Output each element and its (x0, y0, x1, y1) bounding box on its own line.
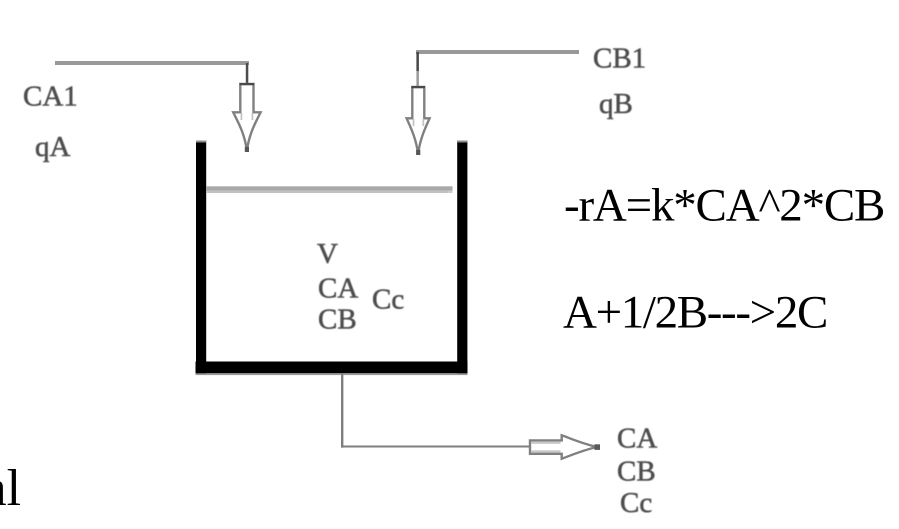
arrow: inlet B down arrow (407, 87, 430, 154)
arrow: inlet A down arrow (233, 84, 260, 151)
arrow: inlet B shaft top dark edge (411, 86, 425, 88)
liquid level line (206, 186, 453, 191)
svg-text:V: V (317, 238, 338, 270)
tank left wall top cap (196, 141, 206, 143)
svg-text:al: al (0, 460, 21, 517)
wire: inlet B vertical connector lower lighter part (416, 71, 419, 87)
wire: inlet A vertical connector (246, 63, 249, 84)
wire: outlet horizontal line (342, 446, 530, 448)
arrow: outlet dark tip (595, 444, 601, 450)
svg-text:CA1: CA1 (23, 81, 78, 113)
arrow: inlet A shaft inner line hints (241, 113, 243, 120)
svg-text:CA: CA (617, 423, 657, 455)
tank right wall (457, 141, 467, 374)
svg-text:CB1: CB1 (593, 43, 646, 75)
svg-text:A+1/2B--->2C: A+1/2B--->2C (563, 287, 827, 339)
wire: inlet A horizontal pipe (55, 61, 249, 65)
liquid level right tip lighter (448, 191, 453, 193)
svg-text:CB: CB (318, 304, 357, 336)
svg-text:CA: CA (318, 273, 358, 305)
arrow: outlet right arrow (530, 435, 597, 458)
tank bottom lower fringe (196, 373, 468, 375)
tank right wall top cap (457, 141, 467, 143)
svg-text:CB: CB (617, 456, 656, 488)
arrow: inlet A shaft top dark edge (240, 83, 255, 85)
arrow: inlet B dark tip (416, 150, 420, 155)
arrow: inlet B shaft inner line hints (413, 119, 415, 126)
svg-text:Cc: Cc (372, 284, 404, 316)
tank bottom (196, 362, 468, 374)
tank left wall (196, 141, 206, 374)
arrow: outlet arrow shaft shading (532, 442, 561, 444)
wire: inlet B vertical connector (416, 52, 419, 71)
svg-text:Cc: Cc (620, 487, 652, 519)
wire: outlet vertical line (341, 373, 343, 447)
liquid level line lower lighter band (206, 191, 448, 193)
svg-text:-rA=k*CA^2*CB: -rA=k*CA^2*CB (564, 180, 884, 232)
arrow: inlet A dark tip (245, 147, 249, 152)
wire: inlet B horizontal pipe (416, 50, 579, 54)
svg-text:qA: qA (35, 131, 71, 163)
svg-text:qB: qB (599, 88, 633, 120)
